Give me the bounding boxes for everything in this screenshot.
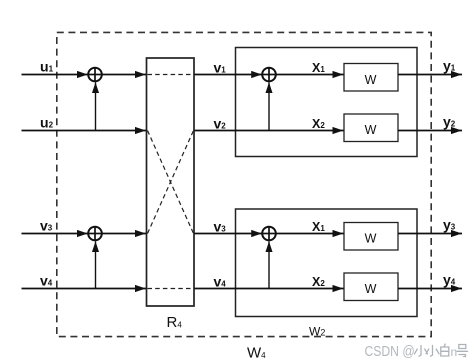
svg-text:W2: W2: [309, 325, 325, 339]
svg-text:W: W: [365, 123, 377, 137]
svg-text:W: W: [365, 73, 377, 87]
svg-text:W: W: [365, 232, 377, 246]
svg-text:CSDN @: CSDN @: [365, 343, 415, 359]
svg-text:W: W: [365, 282, 377, 296]
svg-text:n: n: [451, 345, 458, 359]
